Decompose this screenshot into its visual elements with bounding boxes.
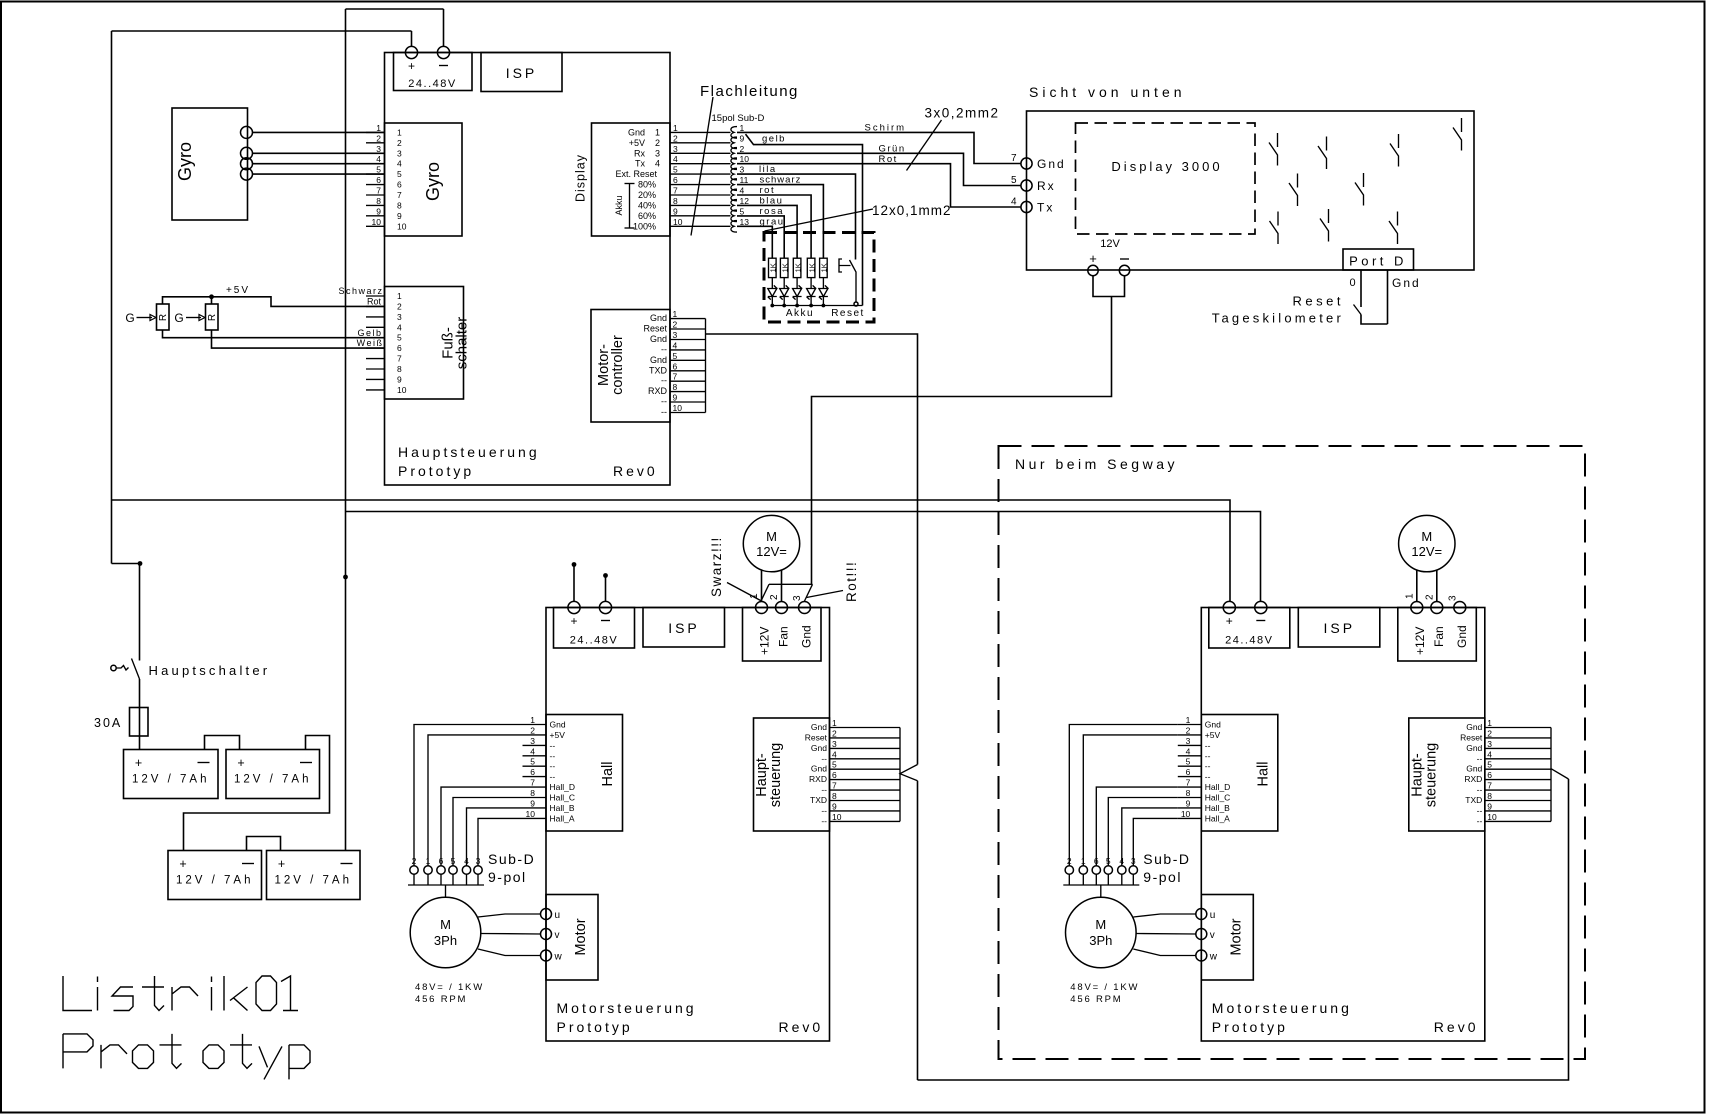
switch S6 (1355, 173, 1364, 206)
svg-text:TXD: TXD (810, 795, 827, 805)
pin stub hall 7 (523, 786, 547, 788)
pin stub hall 2 (523, 734, 547, 736)
svg-text:3: 3 (832, 739, 837, 749)
svg-text:7: 7 (673, 186, 678, 196)
subd9 pin tick (427, 874, 429, 885)
subd9 pin 2 circle (1065, 866, 1073, 874)
pin stub hs 1 (830, 727, 901, 729)
block ISP (1298, 608, 1380, 648)
svg-text:1K: 1K (769, 263, 778, 272)
terminal + circle (568, 601, 580, 613)
svg-text:9: 9 (1487, 801, 1492, 811)
pin stub hs 4 (1485, 758, 1551, 760)
wire mc bus to chevron (706, 334, 918, 765)
wire Gruen to Rx5 (737, 153, 1021, 185)
pin stub hs 9 (830, 810, 901, 812)
svg-text:Reset: Reset (805, 732, 828, 742)
pin stub mc 5 (670, 359, 706, 361)
svg-text:456 RPM: 456 RPM (1070, 994, 1122, 1005)
wire hall pin2 to subd (428, 735, 523, 866)
svg-text:Rot: Rot (367, 297, 382, 307)
pin stub fuss 10 (366, 389, 385, 391)
arrow G to R (186, 317, 201, 319)
wire akku bus (771, 305, 863, 307)
svg-text:12V=: 12V= (756, 544, 787, 559)
svg-text:Rev0: Rev0 (1434, 1019, 1479, 1035)
node akku bus junction (809, 304, 813, 308)
svg-text:Prototyp: Prototyp (1212, 1019, 1288, 1035)
subd hook pin 2 (731, 148, 737, 160)
svg-text:6: 6 (673, 361, 678, 371)
svg-text:--: -- (1477, 753, 1483, 763)
pin stub hs 3 (830, 747, 901, 749)
subd9 pin 2 circle (410, 866, 418, 874)
switch S5 (1289, 174, 1298, 207)
wire gyro pin1 (253, 131, 385, 133)
svg-text:7: 7 (673, 372, 678, 382)
svg-text:12x0,1mm2: 12x0,1mm2 (872, 203, 952, 218)
svg-text:30A: 30A (94, 716, 122, 730)
svg-text:1: 1 (832, 718, 837, 728)
svg-text:Hall_C: Hall_C (1205, 793, 1231, 803)
svg-text:456 RPM: 456 RPM (415, 994, 467, 1005)
pin stub mc 2 (670, 328, 706, 330)
svg-text:3: 3 (655, 148, 660, 158)
wire R to diode (783, 278, 785, 289)
pin stub gyro-conn 3 (366, 152, 385, 154)
wire plus to right block (112, 500, 1231, 602)
svg-text:10: 10 (372, 217, 382, 227)
battery B3 12V 7Ah (168, 851, 262, 900)
wire diode to bus (796, 297, 798, 306)
svg-text:3: 3 (1487, 739, 1492, 749)
motor M 3Ph (1066, 897, 1137, 968)
wire motor u (478, 914, 541, 917)
svg-text:RXD: RXD (809, 774, 827, 784)
box Nur beim Segway dashed (999, 446, 1586, 1059)
node akku bus junction (822, 304, 826, 308)
wire display pin9 to SubD (670, 215, 731, 217)
svg-text:1: 1 (1186, 715, 1191, 725)
resistor 1K at 823.4 (820, 258, 828, 277)
svg-text:9: 9 (673, 393, 678, 403)
svg-text:5: 5 (530, 757, 535, 767)
gyro terminal circle pin4 (241, 158, 253, 170)
svg-text:1: 1 (1487, 718, 1492, 728)
motor M 12V fan (1399, 515, 1455, 571)
svg-text:6: 6 (439, 856, 444, 866)
svg-text:v: v (555, 930, 560, 941)
svg-text:--: -- (821, 753, 827, 763)
svg-text:Hall_D: Hall_D (550, 782, 576, 792)
svg-text:2: 2 (397, 138, 402, 148)
wire hall pin9 to subd (467, 808, 523, 866)
terminal + circle (405, 46, 417, 58)
label - (242, 863, 254, 865)
svg-text:4: 4 (464, 856, 469, 866)
svg-text:7: 7 (1487, 781, 1492, 791)
battery B4 12V 7Ah (267, 851, 361, 900)
svg-text:10: 10 (1181, 809, 1191, 819)
svg-text:2: 2 (832, 728, 837, 738)
svg-text:4: 4 (1487, 749, 1492, 759)
diode at 797.1 (793, 285, 802, 299)
svg-text:Gnd: Gnd (1466, 722, 1482, 732)
subd9 pin 6 circle (1092, 866, 1100, 874)
svg-text:7: 7 (832, 781, 837, 791)
svg-text:7: 7 (530, 778, 535, 788)
wire plus rail left (111, 31, 113, 564)
svg-text:6: 6 (397, 343, 402, 353)
wire rosa to R2 (737, 216, 784, 258)
svg-text:Motorsteuerung: Motorsteuerung (1212, 1000, 1352, 1016)
connector Motor (546, 895, 598, 981)
svg-text:Reset: Reset (643, 324, 667, 334)
svg-text:G: G (174, 311, 183, 325)
svg-text:10: 10 (740, 154, 750, 164)
svg-text:1: 1 (673, 309, 678, 319)
arrow G to R (137, 317, 153, 319)
pin stub hs 2 (830, 737, 901, 739)
pin stub gyro-conn 9 (366, 215, 385, 217)
svg-text:Gelb: Gelb (357, 328, 382, 338)
svg-text:steuerung: steuerung (1423, 743, 1439, 808)
svg-text:2: 2 (673, 320, 678, 330)
block Display 3000 Sicht von unten (1027, 111, 1475, 270)
svg-text:6: 6 (1186, 767, 1191, 777)
connector +12V Fan Gnd (743, 608, 822, 662)
svg-text:Gnd: Gnd (811, 743, 827, 753)
svg-text:Hall: Hall (600, 762, 616, 787)
svg-text:10: 10 (832, 812, 842, 822)
svg-text:Gnd: Gnd (650, 334, 667, 344)
gyro terminal circle pin1 (241, 126, 253, 138)
svg-text:Gyro: Gyro (423, 162, 443, 201)
pin stub fuss 8 (366, 368, 385, 370)
svg-text:3: 3 (673, 330, 678, 340)
block Motorsteuerung Prototyp Rev0 (546, 608, 830, 1042)
pin stub hall 4 (1178, 755, 1202, 757)
subd hook pin 4 (731, 189, 737, 201)
svg-text:100%: 100% (633, 221, 656, 231)
wire hall pin7 to subd (1096, 787, 1178, 866)
subd hook pin 3 (731, 168, 737, 180)
svg-text:24..48V: 24..48V (1225, 635, 1273, 647)
wire display pin1 to SubD (670, 131, 731, 133)
svg-text:4: 4 (655, 159, 660, 169)
svg-text:+: + (570, 614, 577, 628)
leader Rot to pin3 (807, 591, 844, 598)
svg-text:--: -- (1477, 785, 1483, 795)
svg-text:Hall_C: Hall_C (550, 793, 576, 803)
svg-text:Rx: Rx (634, 148, 645, 158)
svg-text:--: -- (661, 397, 667, 407)
resistor 1K at 784.2 (780, 258, 788, 277)
svg-text:Gnd: Gnd (1392, 276, 1421, 290)
pin stub gyro-conn 10 (366, 225, 385, 227)
label - (1256, 620, 1265, 622)
wire hall pin1 to subd (1069, 725, 1178, 866)
leader 12x0,1mm2 (765, 209, 874, 231)
wire gelb pin9 to Reset (746, 134, 863, 305)
subd9 pin 6 circle (437, 866, 445, 874)
svg-text:3: 3 (376, 144, 381, 154)
wire hall pin9 to subd (1122, 808, 1178, 866)
wire minus to right block (346, 512, 1261, 602)
pin stub hs 7 (830, 789, 901, 791)
svg-text:--: -- (550, 761, 556, 771)
subd9 pin 1 circle (424, 866, 432, 874)
svg-text:Reset: Reset (1460, 732, 1483, 742)
svg-text:2: 2 (1487, 728, 1492, 738)
pin stub mc 9 (670, 401, 706, 403)
svg-text:3: 3 (740, 165, 745, 175)
node akku bus junction (782, 304, 786, 308)
svg-text:Gnd: Gnd (1037, 157, 1066, 171)
svg-text:Motorsteuerung: Motorsteuerung (557, 1000, 697, 1016)
pin stub mc 10 (670, 412, 706, 414)
subd hook pin 10 (731, 158, 737, 170)
wire fan 1 (761, 570, 763, 602)
svg-text:Hall_D: Hall_D (1205, 782, 1231, 792)
potentiometer R left (157, 304, 170, 330)
pin stub hs 6 (830, 779, 901, 781)
svg-text:2: 2 (530, 725, 535, 735)
svg-text:8: 8 (832, 791, 837, 801)
svg-text:R: R (158, 314, 169, 321)
svg-text:5: 5 (673, 351, 678, 361)
terminal Rx circle (1021, 180, 1032, 191)
terminal block 24..48V (554, 608, 635, 649)
terminal 12V- circle (1119, 265, 1129, 275)
svg-text:Gyro: Gyro (175, 142, 195, 181)
battery B2 12V 7Ah (226, 750, 320, 799)
svg-text:7: 7 (1186, 778, 1191, 788)
svg-text:v: v (1210, 930, 1215, 941)
motor pin u circle (541, 909, 552, 920)
wire grau to R1 (737, 226, 772, 258)
wire left block + stub (573, 565, 575, 602)
subd9 base line (408, 884, 484, 886)
wire bus bottom link (918, 779, 1569, 1080)
svg-text:1: 1 (376, 123, 381, 133)
block Motorsteuerung Prototyp Rev0 (1201, 608, 1485, 1042)
svg-text:1K: 1K (793, 263, 802, 272)
wire hall pin8 to subd (453, 798, 523, 866)
motor pin w circle (1196, 950, 1207, 961)
svg-text:9: 9 (397, 211, 402, 221)
subd9 pin 4 circle (462, 866, 470, 874)
svg-text:Tx: Tx (635, 159, 645, 169)
pin stub mc 1 (670, 318, 706, 320)
terminal Gnd circle (1021, 158, 1032, 169)
pin stub hs 9 (1485, 810, 1551, 812)
wire pot2 to Weiss pin6 (212, 330, 385, 348)
svg-text:5: 5 (1487, 760, 1492, 770)
pin stub hall 7 (1178, 786, 1202, 788)
svg-text:2: 2 (769, 594, 780, 600)
wire B1- to B2+ (205, 736, 240, 750)
wire to Hauptschalter (112, 564, 140, 661)
pin stub hall 8 (1178, 797, 1202, 799)
pin stub hall 8 (523, 797, 547, 799)
svg-text:3: 3 (397, 148, 402, 158)
svg-text:12V=: 12V= (1411, 544, 1442, 559)
wire rot to R4 (737, 195, 811, 258)
svg-text:RXD: RXD (1464, 774, 1482, 784)
wire fan 1 (1416, 570, 1418, 602)
pin stub hall 10 (523, 817, 547, 819)
svg-text:Hall_B: Hall_B (1205, 803, 1230, 813)
svg-text:2: 2 (673, 133, 678, 143)
svg-text:+5V: +5V (226, 285, 250, 296)
wire Rot to Tx4 (737, 164, 1021, 207)
pin stub hs 4 (830, 758, 901, 760)
svg-text:48V= / 1KW: 48V= / 1KW (1070, 982, 1139, 993)
subd9 pin 5 circle (449, 866, 457, 874)
wire subd to motor (1100, 885, 1102, 897)
svg-text:Sicht von unten: Sicht von unten (1029, 84, 1186, 100)
wire display pin4 to SubD (670, 163, 731, 165)
svg-text:Sub-D: Sub-D (1143, 851, 1190, 867)
node akku bus junction (770, 304, 774, 308)
pin stub fuss 6 (366, 347, 385, 349)
subd9 pin tick (413, 874, 415, 885)
subd9 base line (1063, 884, 1139, 886)
node +5V junction (209, 294, 214, 299)
svg-text:2: 2 (1424, 594, 1435, 600)
wire display pin5 to SubD (670, 173, 731, 175)
svg-text:12V / 7Ah: 12V / 7Ah (234, 774, 312, 786)
pin stub gyro-conn 2 (366, 142, 385, 144)
switch contact circle (854, 302, 858, 306)
svg-text:2: 2 (740, 144, 745, 154)
svg-text:2: 2 (1067, 856, 1072, 866)
svg-text:12V / 7Ah: 12V / 7Ah (176, 875, 254, 887)
leader Swarz to pin1 (727, 583, 762, 602)
pin stub hall 5 (1178, 765, 1202, 767)
diode at 823.4 (819, 285, 828, 299)
wire display pin8 to SubD (670, 204, 731, 206)
svg-text:--: -- (661, 344, 667, 354)
wire R to diode (822, 278, 824, 289)
svg-text:8: 8 (376, 196, 381, 206)
svg-text:Akku: Akku (614, 195, 624, 215)
svg-text:w: w (554, 952, 563, 963)
svg-text:6: 6 (1094, 856, 1099, 866)
wire PortD Gnd (1387, 270, 1389, 324)
svg-text:24..48V: 24..48V (408, 78, 456, 90)
wire hall pin8 to subd (1108, 798, 1178, 866)
wire 12V pair to fan (812, 297, 1112, 585)
terminal block 24..48V (1209, 608, 1290, 649)
resistor 1K at 772.3 (769, 258, 777, 277)
pin stub hs 8 (830, 800, 901, 802)
diode at 784.2 (780, 285, 789, 299)
wire schwarz to R5 (737, 185, 823, 259)
svg-text:6: 6 (673, 175, 678, 185)
svg-text:7: 7 (397, 190, 402, 200)
pin stub gyro-conn 6 (366, 184, 385, 186)
motor M 12V fan (743, 515, 799, 571)
svg-text:Rot!!!: Rot!!! (844, 561, 859, 602)
switch S3 (1390, 134, 1399, 167)
node - stub dot (603, 573, 608, 578)
wire +5V to Rot pin2 (163, 297, 385, 307)
hs bus line (899, 728, 901, 822)
svg-text:Hall: Hall (1255, 762, 1271, 787)
terminal - circle (437, 46, 449, 58)
svg-text:M: M (1095, 917, 1106, 932)
svg-text:+5V: +5V (1205, 730, 1221, 740)
pin stub gyro-conn 4 (366, 163, 385, 165)
svg-text:Hall_B: Hall_B (550, 803, 575, 813)
wire hall pin10 to subd (1133, 818, 1178, 865)
svg-text:10: 10 (1487, 812, 1497, 822)
battery B1 12V 7Ah (124, 750, 219, 799)
wire display pin10 to SubD (670, 225, 731, 227)
mc bus line (705, 319, 707, 413)
svg-text:8: 8 (530, 788, 535, 798)
svg-text:M: M (766, 529, 777, 544)
wire gyro pin5 (253, 173, 385, 175)
svg-text:9: 9 (1186, 798, 1191, 808)
wire hall pin1 to subd (414, 725, 523, 866)
wire lila to switch (737, 174, 856, 259)
svg-text:10: 10 (673, 403, 683, 413)
switch S4 (1453, 118, 1462, 151)
subd9 pin tick (1068, 874, 1070, 885)
svg-text:--: -- (821, 805, 827, 815)
subd hook pin 12 (731, 200, 737, 212)
subd9 pin 3 circle (1129, 866, 1137, 874)
svg-text:--: -- (1205, 761, 1211, 771)
subd9 pin tick (1107, 874, 1109, 885)
svg-text:3Ph: 3Ph (434, 933, 457, 948)
svg-text:4: 4 (397, 159, 402, 169)
svg-text:Gnd: Gnd (1466, 764, 1482, 774)
wire PortD 0 (1360, 270, 1362, 307)
svg-text:--: -- (1205, 772, 1211, 782)
pin stub fuss 5 (366, 337, 385, 339)
svg-text:1: 1 (397, 127, 402, 137)
svg-text:Reset: Reset (1293, 294, 1344, 309)
pin stub hs 5 (830, 768, 901, 770)
connector Hall (1201, 715, 1278, 832)
wire diag to right bus (1551, 769, 1568, 779)
component Gyro sensor box (172, 108, 248, 220)
fan pin2 circle (1431, 602, 1443, 614)
svg-text:1K: 1K (820, 263, 829, 272)
block ISP (643, 608, 725, 648)
pin stub hall 10 (1178, 817, 1202, 819)
pin stub fuss 2 (366, 305, 385, 307)
wire motor v (1136, 933, 1196, 936)
svg-text:Rev0: Rev0 (779, 1019, 824, 1035)
svg-text:Port D: Port D (1349, 254, 1407, 269)
svg-text:1: 1 (673, 123, 678, 133)
wire pot2 top (211, 297, 213, 304)
fan pin1 circle (1411, 602, 1423, 614)
svg-text:3: 3 (673, 144, 678, 154)
pin stub hall 2 (1178, 734, 1202, 736)
svg-text:Prototyp: Prototyp (557, 1019, 633, 1035)
svg-text:+: + (179, 857, 186, 871)
terminal Tx circle (1021, 201, 1032, 212)
svg-text:R: R (207, 314, 218, 321)
label - (300, 762, 312, 764)
svg-text:--: -- (550, 751, 556, 761)
